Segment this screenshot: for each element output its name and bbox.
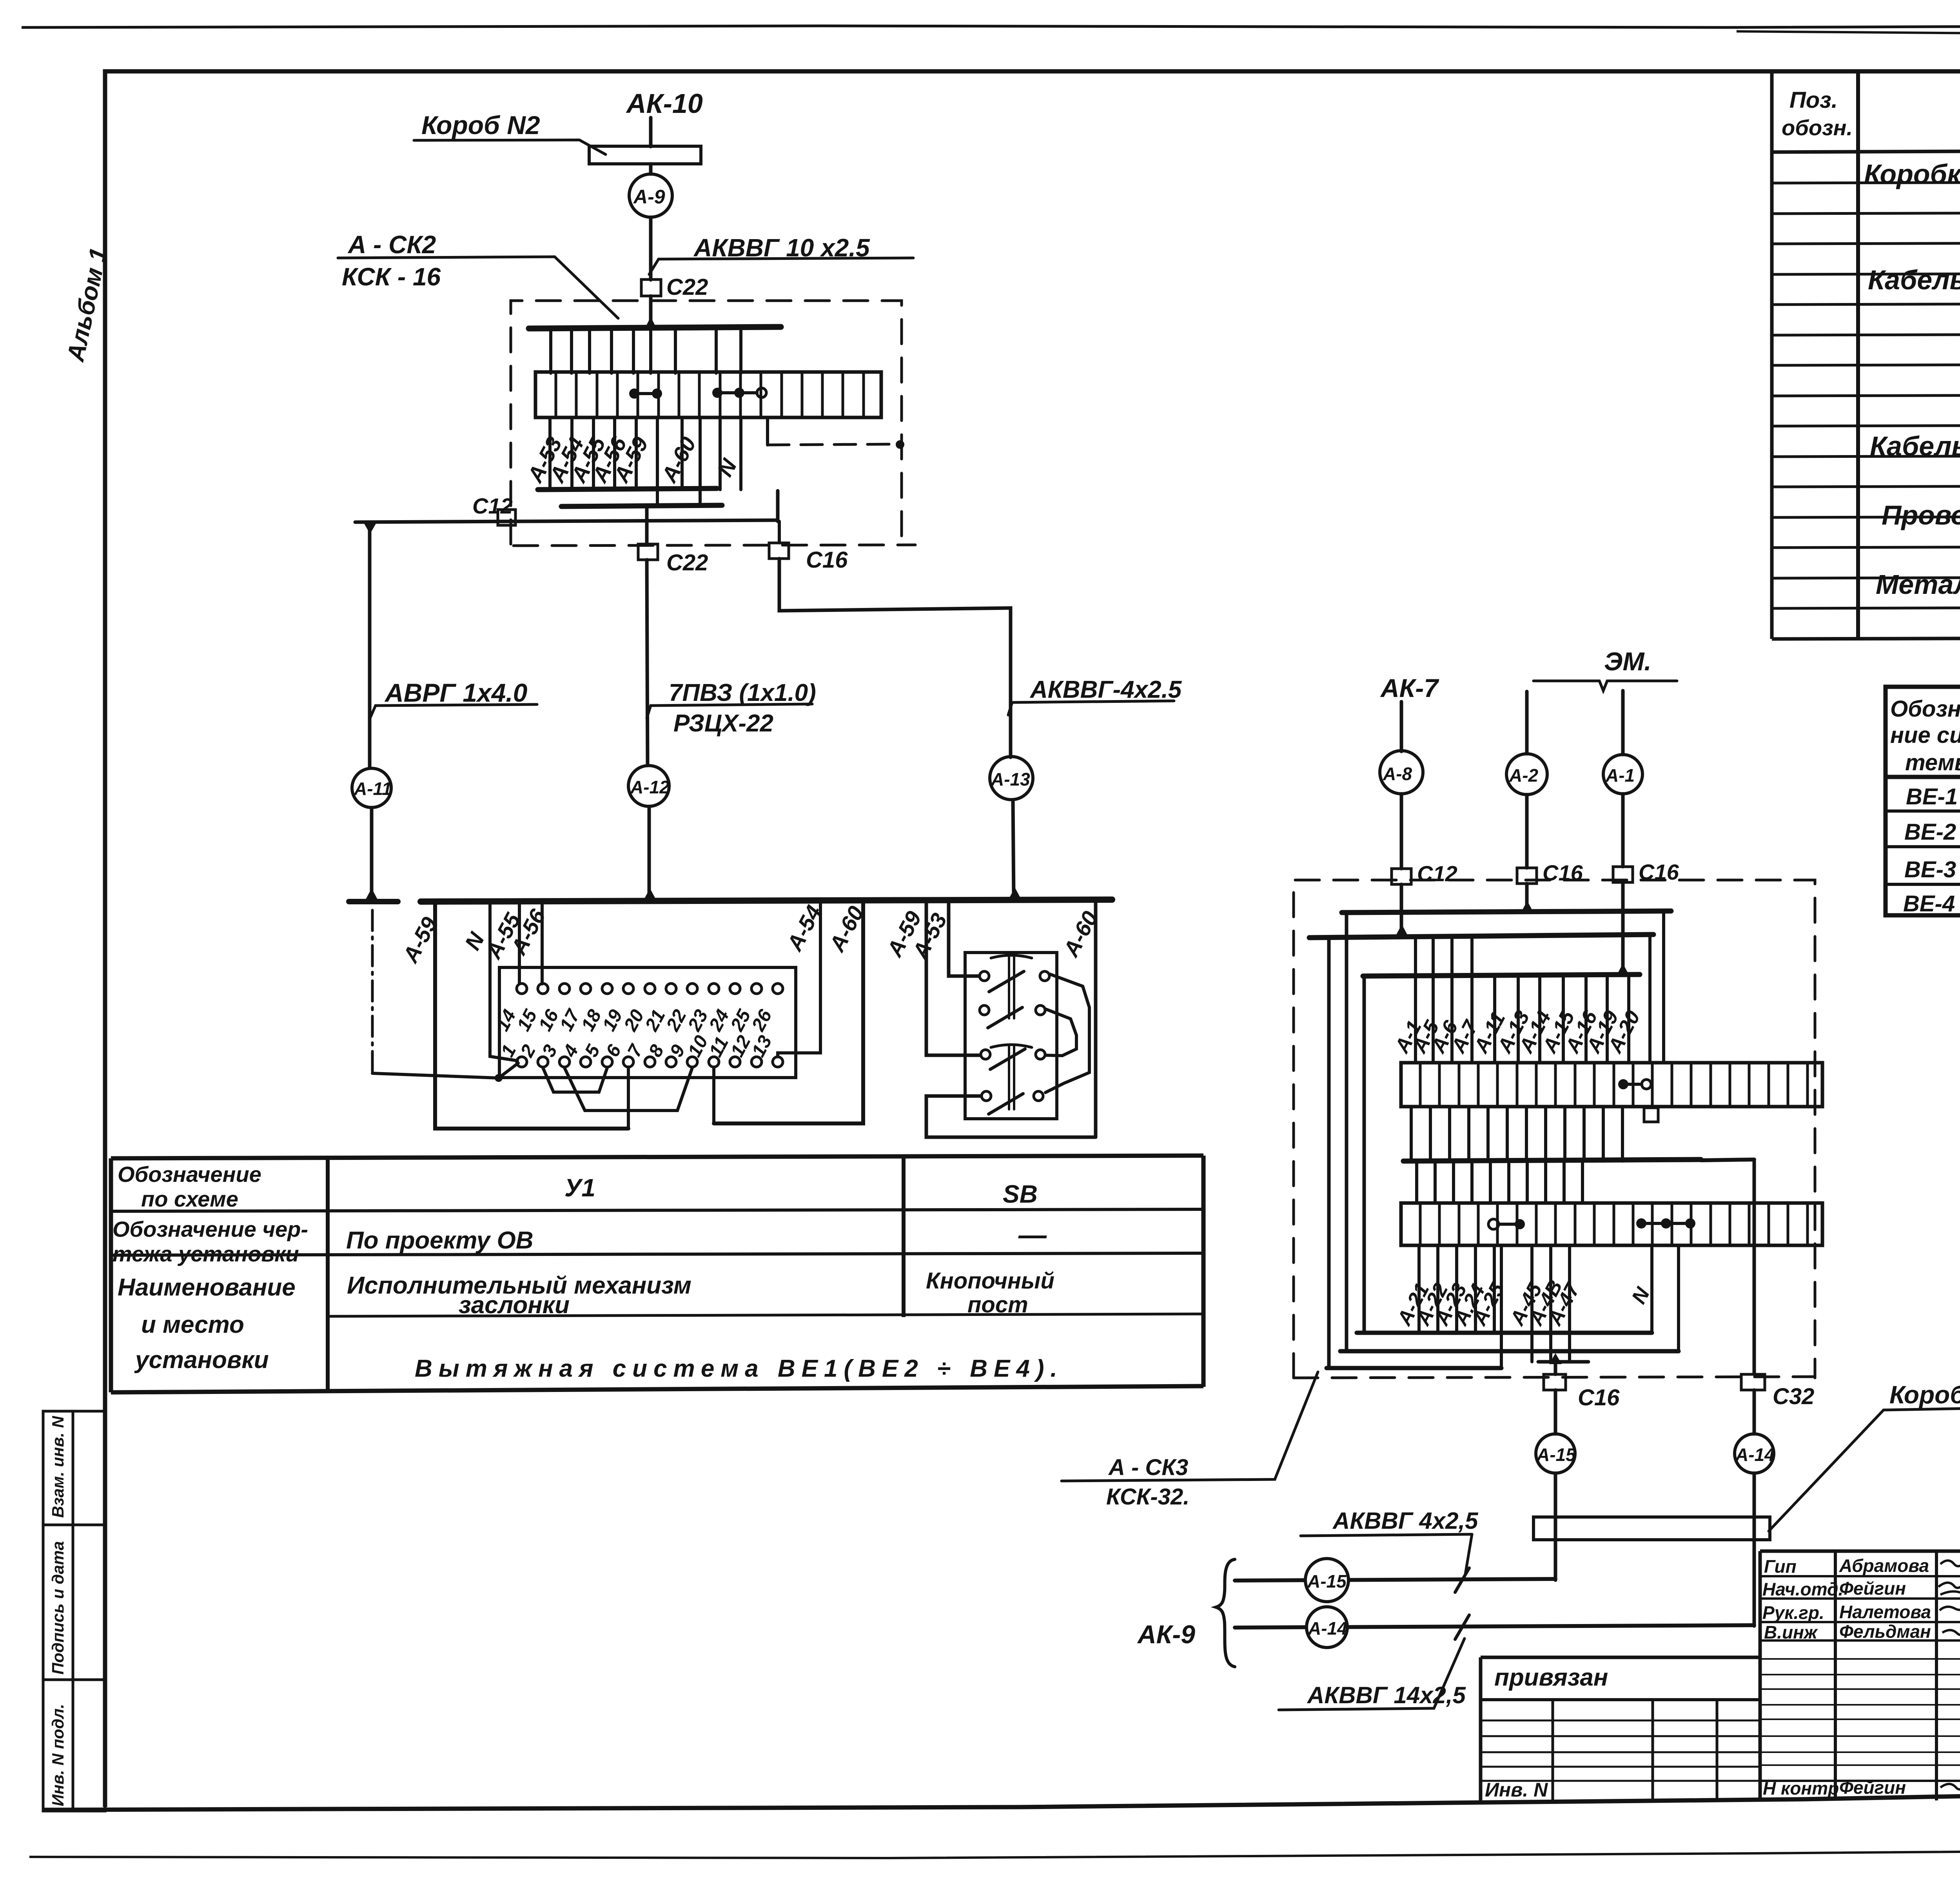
junction А-11 tap — [364, 523, 376, 534]
svg-text:А-14: А-14 — [1735, 1444, 1775, 1465]
cable circle А-8 — [1380, 751, 1423, 794]
bus1 — [1342, 911, 1671, 913]
У1 terminal box — [499, 967, 796, 1078]
junction А-11 bus — [365, 888, 378, 900]
svg-text:АВРГ 1х4.0: АВРГ 1х4.0 — [384, 678, 528, 707]
svg-text:А - СК3: А - СК3 — [1108, 1455, 1188, 1480]
terminal strip 1 — [1401, 1063, 1822, 1107]
svg-text:Коробка соедичительная ТУ36.17: Коробка соедичительная ТУ36.1753-75 — [1864, 159, 1960, 189]
cable circle А-11 — [352, 768, 391, 808]
paper top edge line — [22, 24, 1960, 27]
У1 terminal pins — [517, 984, 783, 1067]
wire below короб — [649, 164, 653, 174]
junction А-8 bus2 — [1396, 924, 1408, 936]
svg-text:Кнопочный: Кнопочный — [926, 1268, 1054, 1294]
marker С16 — [769, 543, 789, 559]
wire stubs bus4 to strip2 — [1417, 1161, 1583, 1203]
wire columns with core labels — [550, 417, 741, 506]
jumper strip2 right — [1636, 1218, 1695, 1229]
svg-text:темы: темы — [1905, 750, 1960, 775]
svg-text:Рук.гр.: Рук.гр. — [1762, 1602, 1824, 1623]
wire А-11 — [368, 524, 372, 768]
wire right riser — [776, 491, 780, 521]
svg-text:Н контр: Н контр — [1763, 1778, 1839, 1798]
wire N right — [1650, 1245, 1653, 1333]
cable circle А-9 — [629, 174, 672, 217]
paper bottom edge line — [29, 1847, 1960, 1858]
marker С12 — [1392, 869, 1411, 884]
wire pin10 drop — [712, 1067, 715, 1123]
svg-text:Подпись и дата: Подпись и дата — [49, 1541, 67, 1675]
contact arms lower — [990, 1049, 1025, 1069]
svg-text:А-12: А-12 — [630, 777, 670, 797]
svg-text:А-15: А-15 — [1536, 1444, 1576, 1465]
У1 left down wire — [435, 902, 628, 1129]
designation table texts — [113, 1162, 1063, 1382]
svg-text:А-13: А-13 — [991, 769, 1030, 789]
svg-text:SB: SB — [1003, 1180, 1038, 1208]
small square below strip1 — [1644, 1108, 1658, 1122]
button plunger upper — [991, 955, 1032, 958]
wire to bus a — [1500, 1245, 1503, 1368]
signatures squiggles — [1940, 1559, 1960, 1566]
wire А-14 riser — [1753, 1161, 1756, 1374]
wire into box — [649, 296, 653, 328]
bottom bus b — [1340, 1349, 1679, 1354]
cable circle А-1 — [1603, 755, 1642, 794]
svg-text:АК-7: АК-7 — [1380, 673, 1439, 702]
inner dashed stub — [766, 417, 769, 445]
svg-text:С32: С32 — [1773, 1384, 1814, 1409]
wire А-2 — [1525, 691, 1529, 754]
wire to А-14 — [1753, 1390, 1756, 1434]
svg-text:Кабель кантрольный ГОСТ1508-78: Кабель кантрольный ГОСТ1508-78Е — [1868, 265, 1960, 295]
wire left horizontal — [355, 520, 778, 522]
svg-text:заслонки: заслонки — [459, 1292, 570, 1319]
crossover wire 1 — [1045, 974, 1089, 1092]
jumper link 1 — [629, 388, 662, 399]
svg-text:С12: С12 — [1417, 861, 1457, 886]
svg-text:пост: пост — [967, 1292, 1028, 1317]
svg-text:А-1: А-1 — [1605, 765, 1635, 786]
parts list texts — [1782, 87, 1960, 633]
SB bottom loop — [926, 1096, 1096, 1137]
lower bus B — [561, 505, 722, 506]
wire to bus b — [1677, 1245, 1680, 1351]
junction А-1 bus3 — [1617, 964, 1629, 975]
wire А-12 lower — [648, 806, 651, 898]
svg-text:В.инж: В.инж — [1764, 1622, 1818, 1642]
svg-text:по схеме: по схеме — [141, 1187, 238, 1211]
wire down to С16 — [1554, 1362, 1557, 1374]
svg-text:С16: С16 — [806, 547, 848, 573]
nested wire 1 — [1327, 938, 1331, 1368]
cable circle А-15 on line — [1305, 1559, 1348, 1602]
svg-text:обозн.: обозн. — [1782, 115, 1853, 140]
svg-text:ние сис-: ние сис- — [1890, 722, 1960, 748]
wire С16 to А-13 — [779, 559, 1011, 757]
svg-text:Инв. N подл.: Инв. N подл. — [49, 1704, 67, 1806]
bus2 — [1309, 935, 1653, 938]
wire А-55 — [518, 902, 521, 983]
top bus of А-СК2 — [529, 327, 781, 328]
wire stubs strip1 to bus4 — [1411, 1107, 1622, 1161]
button plunger lower — [991, 1045, 1032, 1047]
svg-text:ВЕ-1: ВЕ-1 — [1906, 784, 1958, 809]
designation table grid — [111, 1156, 1203, 1158]
cable slash 2 — [1455, 1615, 1469, 1639]
wire А-12 upper — [645, 508, 649, 545]
core labels А-21..N — [1392, 1276, 1654, 1330]
pin numbers lower row — [497, 1032, 776, 1061]
dash-dot spare wire — [371, 910, 374, 1073]
svg-text:АКВВГ 4х2,5: АКВВГ 4х2,5 — [1332, 1508, 1479, 1534]
svg-text:Гип: Гип — [1764, 1556, 1797, 1577]
nested wire 2 — [1345, 913, 1348, 1351]
lower bus A — [538, 488, 717, 490]
cable slash 1 — [1455, 1568, 1469, 1592]
duct box Короб N2 — [589, 146, 701, 164]
bus4 — [1403, 1160, 1701, 1161]
jumper pin2-pin5 — [543, 1068, 607, 1092]
svg-text:—: — — [1018, 1219, 1047, 1251]
svg-text:У1: У1 — [564, 1174, 595, 1202]
wire А-13 lower — [1013, 800, 1014, 897]
signature table — [1760, 1550, 1960, 1553]
route length table grid — [1886, 687, 1960, 915]
parts list table grid — [1770, 73, 1774, 639]
core labels А-1..А-20 — [1390, 1007, 1644, 1057]
wire АК-9 line 2 — [1235, 1625, 1754, 1628]
wire А-1 — [1621, 691, 1625, 755]
wire А-54 — [778, 902, 820, 1057]
wire stubs bus to strip — [551, 330, 741, 373]
svg-text:Металлорукав ТУ22-2178-71: Металлорукав ТУ22-2178-71 — [1876, 569, 1960, 600]
svg-text:А-9: А-9 — [633, 186, 665, 208]
main bottom bus — [421, 900, 1112, 902]
svg-text:Наименование: Наименование — [118, 1274, 296, 1301]
paper top secondary wavy line — [1737, 31, 1960, 52]
wire А-9 to box — [649, 217, 653, 280]
svg-text:С22: С22 — [666, 274, 708, 300]
SB core labels — [882, 907, 1103, 964]
bottom bus c — [1357, 1331, 1652, 1335]
svg-text:Фейгин: Фейгин — [1839, 1578, 1906, 1599]
svg-text:и место: и место — [141, 1311, 244, 1338]
inventory stamp strip boxes — [43, 1411, 105, 1811]
pin numbers upper row — [492, 1005, 776, 1035]
inventory strip captions — [49, 1415, 67, 1806]
svg-text:Взам. инв. N: Взам. инв. N — [49, 1415, 67, 1518]
svg-text:А - СК2: А - СК2 — [347, 230, 436, 259]
ЭМ bracket — [1534, 681, 1677, 691]
marker С16 — [1613, 867, 1633, 882]
svg-text:А-14: А-14 — [1308, 1618, 1347, 1639]
cable circle А-13 — [990, 757, 1033, 800]
svg-text:С16: С16 — [1543, 860, 1583, 885]
wires А-45..А-47 — [1532, 1245, 1570, 1362]
jumper link 2 — [712, 388, 766, 398]
svg-text:Обозначение чер-: Обозначение чер- — [113, 1217, 308, 1241]
leader line Короб N2 — [414, 140, 606, 154]
svg-text:Обозначе: Обозначе — [1890, 696, 1960, 722]
svg-text:КСК-32.: КСК-32. — [1106, 1484, 1189, 1510]
svg-text:Инв. N: Инв. N — [1485, 1779, 1548, 1801]
junction А-12 bus — [644, 888, 656, 900]
marker С12 — [498, 510, 515, 525]
svg-text:ЭМ.: ЭМ. — [1604, 647, 1651, 676]
route length table texts — [1890, 695, 1960, 916]
junction at top bus — [644, 317, 657, 329]
cable circle А-14 — [1735, 1434, 1774, 1473]
svg-text:АКВВГ-4х2.5: АКВВГ-4х2.5 — [1029, 676, 1182, 703]
svg-text:По проекту ОВ: По проекту ОВ — [346, 1227, 534, 1254]
wire С16 riser — [778, 521, 781, 543]
svg-text:РЗЦХ-22: РЗЦХ-22 — [673, 710, 773, 737]
cable circle А-15 — [1536, 1434, 1575, 1473]
SB wire left inner — [949, 902, 979, 976]
marker С16 bottom — [1544, 1374, 1566, 1390]
svg-text:Абрамова: Абрамова — [1839, 1555, 1929, 1576]
svg-text:Провод ГОСТ6323-79: Провод ГОСТ6323-79 — [1882, 500, 1960, 530]
svg-text:АК-10: АК-10 — [626, 88, 703, 119]
junction box А-СК3 dashed outline — [1294, 880, 1815, 1378]
svg-text:установки: установки — [134, 1346, 269, 1374]
svg-text:Кабель силовой ГОСТ 433-33: Кабель силовой ГОСТ 433-33 — [1870, 431, 1960, 461]
svg-text:тежа установки: тежа установки — [113, 1241, 299, 1266]
wire АК-10 drop — [649, 118, 653, 147]
svg-text:С16: С16 — [1578, 1385, 1620, 1410]
jumper pin3-pin9 — [564, 1068, 692, 1111]
wire А-56 — [541, 902, 544, 984]
marker С22 bottom — [638, 544, 658, 560]
svg-text:Обозначение: Обозначение — [118, 1162, 261, 1187]
marker С22 top — [641, 279, 661, 296]
wire А-60 — [714, 902, 863, 1123]
svg-text:ВЕ-2: ВЕ-2 — [1904, 819, 1956, 845]
wire to А-15 — [1554, 1390, 1557, 1434]
crossover wire 2 — [1045, 1009, 1076, 1056]
wire А-11 lower — [370, 808, 374, 898]
bus stub at А-11 — [349, 899, 398, 904]
svg-text:Фейгин: Фейгин — [1839, 1777, 1906, 1798]
junction А-2 bus1 — [1521, 901, 1534, 913]
svg-text:КСК - 16: КСК - 16 — [342, 263, 441, 291]
core labels А-53..N — [522, 432, 742, 487]
привязан block — [1479, 1657, 1483, 1802]
wire N — [490, 902, 517, 1061]
svg-text:Фельдман: Фельдман — [1839, 1621, 1931, 1642]
bottom bus a — [1327, 1366, 1501, 1370]
junction А-13 bus — [1009, 887, 1021, 899]
wire А-15 lower — [1554, 1473, 1557, 1580]
bus4 extension right — [1701, 1160, 1754, 1160]
jumper strip1 — [1618, 1079, 1651, 1089]
contact circles — [980, 971, 1049, 1101]
svg-text:А-8: А-8 — [1383, 764, 1412, 784]
jumper strip2 left — [1488, 1219, 1525, 1229]
collector of А-45 group — [1538, 1360, 1588, 1364]
contact arms upper — [989, 971, 1024, 992]
SB wire right — [1094, 902, 1098, 1137]
signature names — [1762, 1555, 1931, 1798]
svg-text:Нач.отд.: Нач.отд. — [1762, 1579, 1843, 1599]
nested wire 3 — [1363, 976, 1366, 1333]
svg-text:ВЕ-3: ВЕ-3 — [1904, 857, 1956, 882]
cable circle А-2 — [1506, 754, 1547, 795]
right feeders — [1648, 938, 1651, 1063]
wire АК-9 line 1 — [1235, 1579, 1555, 1581]
brace — [1216, 1559, 1235, 1667]
terminal strip 2 — [1401, 1203, 1822, 1245]
svg-text:КоробN2: КоробN2 — [1889, 1381, 1960, 1409]
cable circle А-12 — [628, 766, 669, 806]
svg-text:7ПВЗ (1х1.0): 7ПВЗ (1х1.0) — [669, 679, 816, 706]
core labels У1 — [397, 901, 869, 967]
marker С16 — [1517, 868, 1537, 884]
terminal strip А-СК2 — [535, 372, 881, 417]
wire stubs into strip1 — [1416, 938, 1629, 1063]
bus3 — [1363, 974, 1640, 976]
svg-text:АК-9: АК-9 — [1137, 1620, 1195, 1649]
cable circle А-14 on line — [1307, 1607, 1347, 1648]
wire А-14 lower — [1753, 1473, 1756, 1626]
marker С32 — [1741, 1374, 1765, 1390]
svg-text:С12: С12 — [472, 494, 513, 518]
diagonal spare wire to У1 — [372, 1063, 518, 1078]
junction box А-СК2 dashed outline — [511, 301, 902, 546]
svg-text:А-11: А-11 — [354, 778, 392, 799]
svg-text:Короб N2: Короб N2 — [421, 111, 540, 140]
svg-text:привязан: привязан — [1494, 1664, 1608, 1691]
svg-text:С22: С22 — [666, 550, 708, 575]
wires А-21..А-25 — [1419, 1245, 1494, 1333]
svg-text:Налетова: Налетова — [1839, 1602, 1931, 1622]
duct Короб N2 right — [1534, 1517, 1770, 1540]
svg-text:А-2: А-2 — [1509, 765, 1539, 786]
svg-text:Вытяжная система ВЕ1(ВЕ2 ÷ В: Вытяжная система ВЕ1(ВЕ2 ÷ ВЕ4). — [415, 1355, 1063, 1382]
svg-text:Поз.: Поз. — [1789, 87, 1838, 113]
wire АК-7 — [1400, 702, 1403, 751]
svg-text:А-15: А-15 — [1307, 1571, 1347, 1591]
wire pin6 drop — [627, 1067, 630, 1129]
SB wire left outer — [926, 902, 980, 1055]
push button station box — [965, 953, 1057, 1119]
svg-text:ВЕ-4: ВЕ-4 — [1903, 891, 1955, 916]
wire А-12 — [647, 560, 648, 766]
